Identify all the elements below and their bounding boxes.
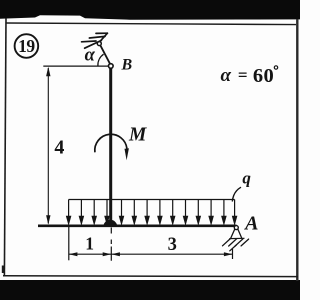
support A ground hatching (223, 239, 249, 251)
svg-text:4: 4 (54, 137, 64, 159)
corner blob bottom-left (2, 266, 5, 274)
hinge circle B (109, 64, 114, 69)
filled half-disc at column base (103, 220, 117, 227)
dimension line 4 (vertical) (47, 68, 49, 224)
frame top line (6, 23, 296, 25)
extension line below beam middle (110, 228, 112, 261)
frame left line (4, 18, 6, 276)
frame bottom line (3, 275, 298, 278)
svg-text:M: M (128, 125, 147, 146)
svg-text:α: α (220, 65, 231, 86)
frame right line (296, 19, 298, 281)
moment M arc with arrow (95, 134, 127, 152)
svg-text:A: A (243, 212, 258, 234)
support A triangle (231, 229, 242, 239)
anchor hinge circle (97, 42, 101, 46)
extension tick right (232, 249, 234, 259)
svg-text:q: q (242, 169, 251, 188)
svg-text:α: α (85, 46, 96, 66)
bottom scan band (0, 280, 300, 300)
svg-text:19: 19 (18, 36, 35, 56)
svg-text:=: = (238, 66, 248, 85)
extension line below beam left (68, 227, 70, 260)
link rod from anchor to B (100, 45, 110, 64)
support A: hinge circle (234, 226, 238, 230)
beam (horizontal) (38, 225, 237, 228)
column (vertical bar) (109, 68, 112, 221)
circled number 19 (15, 34, 39, 58)
wall hatching at top anchor (82, 33, 108, 48)
distributed load q: top line (69, 199, 235, 201)
svg-text:60: 60 (253, 65, 274, 87)
svg-text:3: 3 (168, 235, 177, 255)
q leader line (232, 187, 241, 201)
svg-text:B: B (120, 57, 132, 74)
top extension line (43, 65, 109, 67)
top scan band (0, 0, 300, 20)
angle arc at B (98, 54, 104, 66)
dimension line 3 (111, 253, 232, 255)
svg-text:1: 1 (85, 234, 94, 254)
distributed load arrows (67, 200, 237, 224)
dimension line 1 (69, 253, 112, 255)
